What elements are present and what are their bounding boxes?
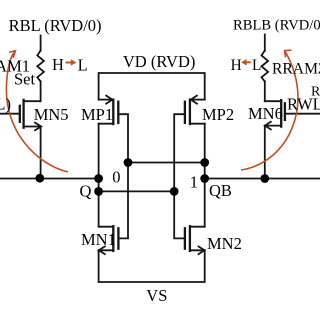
svg-text:MN2: MN2 <box>207 234 242 253</box>
svg-text:VD (RVD): VD (RVD) <box>123 52 195 71</box>
svg-text:RBLB (RVD/0): RBLB (RVD/0) <box>233 18 320 34</box>
svg-text:MN6: MN6 <box>248 104 283 123</box>
svg-text:MP1: MP1 <box>81 105 113 124</box>
transistor MP2 <box>185 96 205 124</box>
wire MN6 source down to right rail <box>264 126 266 179</box>
wire VD rail with drops <box>99 73 205 100</box>
transistor MN5 <box>0 100 41 130</box>
svg-text:Set: Set <box>14 70 36 89</box>
svg-text:Q: Q <box>80 181 92 200</box>
transistor MP1 <box>99 96 119 124</box>
wire RBLB lead <box>264 35 266 51</box>
transistor MN1 <box>99 226 119 254</box>
transistor MN2 <box>185 226 205 254</box>
arrow L to H right (orange) <box>241 59 251 66</box>
resistor RRAM2 <box>262 51 269 82</box>
junction dot Q/couple line <box>94 187 103 196</box>
junction dot MN5/left rail <box>35 174 44 183</box>
wire MN5 source down to left rail <box>40 127 42 179</box>
wire MP2/MN2 gate link <box>174 114 185 238</box>
svg-text:VS: VS <box>146 286 167 305</box>
wire left rail to node Q <box>0 178 99 180</box>
junction dot QB/couple line <box>200 158 209 167</box>
svg-text:(WL): (WL) <box>0 95 11 114</box>
wire node QB column <box>204 124 206 227</box>
wire RRAM1 to MN5 drain <box>40 82 42 102</box>
svg-text:MN1: MN1 <box>81 230 116 249</box>
svg-text:H: H <box>231 57 242 74</box>
wire node Q column <box>98 124 100 227</box>
svg-text:L: L <box>252 57 261 74</box>
svg-text:MP2: MP2 <box>202 105 234 124</box>
svg-text:MN5: MN5 <box>34 105 69 124</box>
junction dot MN6/right rail <box>260 174 269 183</box>
svg-text:L: L <box>78 55 88 74</box>
wire right rail from QB <box>205 178 320 180</box>
svg-text:RWL: RWL <box>287 95 320 114</box>
svg-text:0: 0 <box>112 168 120 187</box>
wire RBL lead <box>40 36 42 51</box>
svg-text:1: 1 <box>190 173 198 192</box>
reset arrow RRAM2 (orange) <box>241 50 298 170</box>
arrow H to L left (orange) <box>66 59 77 66</box>
junction dot right gates/Q couple <box>170 187 179 196</box>
wire cross-couple QB to left gates <box>128 162 205 164</box>
resistor RRAM1 <box>37 51 44 82</box>
transistor MN6 <box>265 100 320 129</box>
svg-text:RRAM2: RRAM2 <box>272 61 320 78</box>
wire MN6 drain to RRAM2 <box>264 82 266 102</box>
wire cross-couple Q to right gates <box>99 190 175 192</box>
set arrow RRAM1 (orange) <box>6 51 68 172</box>
junction dot QB/right rail <box>200 174 209 183</box>
svg-text:H: H <box>52 55 64 74</box>
junction dot left gates/QB couple <box>124 158 133 167</box>
wire MP1/MN1 gate link <box>118 114 128 238</box>
junction dot Q/left rail <box>94 174 103 183</box>
svg-text:RBL (RVD/0): RBL (RVD/0) <box>9 16 102 35</box>
wire VS rail <box>99 250 205 282</box>
svg-text:QB: QB <box>209 181 232 200</box>
